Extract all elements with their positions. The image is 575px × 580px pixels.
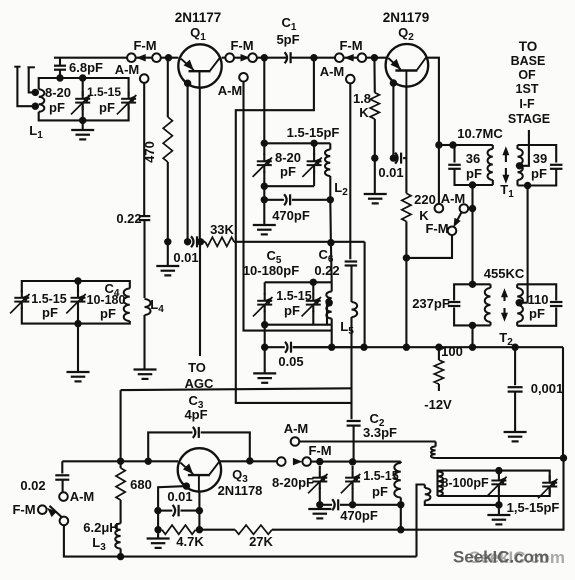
svg-text:39: 39 xyxy=(533,151,547,166)
svg-text:0.01: 0.01 xyxy=(173,250,198,265)
svg-text:8-20: 8-20 xyxy=(275,150,301,165)
capacitor 470pF FM xyxy=(320,499,401,510)
C4 labels xyxy=(87,281,126,321)
T1 secondary coil xyxy=(518,145,523,186)
1.5-15 right label xyxy=(507,500,560,515)
transistor Q1 xyxy=(178,44,221,87)
T2 secondary tap xyxy=(516,299,528,306)
svg-text:F-M: F-M xyxy=(133,38,156,53)
svg-text:3.3pF: 3.3pF xyxy=(363,425,397,440)
C3 labels xyxy=(184,393,207,422)
wire right edge down xyxy=(563,458,564,530)
antenna terminal 1 xyxy=(14,67,35,107)
-12V label xyxy=(424,397,452,412)
capacitor C6 0.22 xyxy=(345,262,358,266)
wire output row xyxy=(293,344,563,351)
F-M contact Q3b xyxy=(302,457,311,466)
svg-text:K: K xyxy=(359,105,369,120)
T2 secondary box xyxy=(517,284,556,326)
1.5-15 C5 label xyxy=(276,289,311,318)
tank top wire xyxy=(261,140,331,147)
svg-text:-12V: -12V xyxy=(424,397,452,412)
470pF FM label xyxy=(340,508,378,523)
L3 label xyxy=(83,520,118,553)
svg-text:OF: OF xyxy=(518,68,536,82)
resistor 33K xyxy=(201,237,365,246)
39pF label xyxy=(531,151,547,181)
1.5-15 C4 label xyxy=(31,292,66,320)
27K label xyxy=(249,534,273,549)
svg-text:SeekIC.com: SeekIC.com xyxy=(469,548,565,567)
variable capacitor C4 mid xyxy=(66,290,85,313)
svg-text:F-M: F-M xyxy=(339,38,362,53)
wire C2 down xyxy=(353,426,355,462)
A-M contact Q3 base xyxy=(59,492,68,501)
svg-text:F-M: F-M xyxy=(308,443,331,458)
wire line1 C3 loop xyxy=(121,388,352,390)
ground under C4 xyxy=(67,324,90,382)
F-M arrow 3 xyxy=(344,54,354,62)
Q3 labels xyxy=(218,467,263,498)
transistor Q2 xyxy=(386,44,429,87)
variable capacitor C4 left xyxy=(10,290,29,313)
svg-text:F-M: F-M xyxy=(12,502,35,517)
svg-text:A-M: A-M xyxy=(70,489,95,504)
svg-text:0.22: 0.22 xyxy=(314,263,339,278)
variable capacitor 1.5-15 L2 tank xyxy=(302,143,321,186)
svg-text:470pF: 470pF xyxy=(272,208,310,223)
resistor 1.8K xyxy=(370,58,379,158)
F-M label mid xyxy=(230,38,253,53)
L1 label xyxy=(29,123,43,141)
inductor small choke xyxy=(425,485,499,505)
resistor 27K xyxy=(199,525,562,534)
A-M contact mid xyxy=(239,73,248,82)
wire box center branch xyxy=(79,74,86,124)
ground under 1.8K xyxy=(364,158,387,203)
inductor FM choke xyxy=(394,462,404,530)
wire C4 center branch xyxy=(74,277,81,327)
T2 secondary coil xyxy=(517,284,523,326)
F-M arrow right xyxy=(241,54,251,62)
T1 secondary box xyxy=(518,145,557,186)
svg-text:4.7K: 4.7K xyxy=(176,534,204,549)
svg-text:1.5-15: 1.5-15 xyxy=(276,289,311,303)
1.8K label xyxy=(353,91,371,120)
T1 primary coil xyxy=(488,145,493,185)
svg-text:A-M: A-M xyxy=(284,421,309,436)
F-M switch contact 2 xyxy=(152,53,161,62)
680 label xyxy=(130,477,152,492)
0.001 label xyxy=(531,381,564,396)
antenna tank box xyxy=(39,78,129,120)
33K label xyxy=(210,222,234,237)
variable capacitor 8-20 L2 tank xyxy=(253,143,272,190)
svg-text:A-M: A-M xyxy=(218,83,243,98)
svg-text:4pF: 4pF xyxy=(184,407,207,422)
tank bottom wire xyxy=(264,185,314,187)
C4 tank box xyxy=(22,281,130,324)
svg-text:1.8: 1.8 xyxy=(353,91,371,106)
F-M label T1 xyxy=(425,221,448,236)
junction dot 470 xyxy=(165,54,172,61)
C5 tank box top xyxy=(265,279,332,286)
wire 0.01 left down xyxy=(154,511,161,534)
watermark xyxy=(453,548,565,568)
ground under FM tank xyxy=(308,505,331,519)
svg-text:1,5-15pF: 1,5-15pF xyxy=(507,500,560,515)
A-M label left xyxy=(115,62,140,77)
470 label xyxy=(142,141,157,163)
wire Q1 emitter down xyxy=(184,80,191,242)
svg-text:36: 36 xyxy=(466,151,480,166)
inductor L4 xyxy=(145,299,151,369)
F-M label right xyxy=(339,38,362,53)
A-M label T1 xyxy=(441,191,466,206)
C1 label xyxy=(276,15,299,47)
ground under 0.001 xyxy=(504,432,527,441)
transistor Q3 xyxy=(178,448,221,491)
junction dots 0.01 xyxy=(164,238,204,245)
F-M switch contact 4 xyxy=(248,53,257,62)
F-M arrow Q3 xyxy=(293,458,303,466)
svg-text:1.5-15pF: 1.5-15pF xyxy=(287,125,340,140)
svg-text:pF: pF xyxy=(466,166,482,181)
T2 label xyxy=(499,330,513,348)
switch arm F-M T1 xyxy=(454,212,462,227)
wire T1 primary feed xyxy=(439,141,457,148)
wire A-M mid down xyxy=(244,82,332,331)
TO AGC label xyxy=(185,360,215,391)
237pF label xyxy=(412,296,450,311)
470pF L2 label xyxy=(272,208,310,223)
capacitor 0.01 Q3 xyxy=(158,505,200,516)
wire bottom rail xyxy=(121,556,417,558)
svg-text:0.22: 0.22 xyxy=(116,211,141,226)
wire Q3 collector out xyxy=(220,457,277,464)
svg-text:220: 220 xyxy=(414,192,436,207)
capacitor 39pF xyxy=(550,165,563,169)
wire jog C1 right xyxy=(236,58,352,403)
svg-text:pF: pF xyxy=(529,306,545,321)
variable capacitor 1.5-15 right xyxy=(538,475,557,498)
svg-text:I-F: I-F xyxy=(519,97,535,111)
T1 primary box xyxy=(455,145,493,185)
capacitor 6.8pF xyxy=(54,58,66,82)
110pF label xyxy=(528,292,549,321)
ground under 470 xyxy=(156,242,179,276)
inductor L3 xyxy=(115,524,124,561)
wire F-M contact to 220K xyxy=(406,235,452,258)
capacitor 0.22 left xyxy=(139,83,151,298)
A-M label Q3 out xyxy=(284,421,309,436)
8-100 box xyxy=(438,467,550,496)
wire T2 primary bottom xyxy=(471,325,473,347)
A-M contact Q3 out xyxy=(291,437,300,446)
svg-text:110: 110 xyxy=(528,292,549,307)
svg-text:2N1178: 2N1178 xyxy=(218,483,263,498)
T2 primary box xyxy=(454,281,490,330)
inductor L5 secondary xyxy=(352,266,358,420)
junction dot 1.8K xyxy=(371,54,378,61)
100 label xyxy=(441,344,463,359)
resistor 100 xyxy=(434,347,443,391)
svg-text:10-180: 10-180 xyxy=(87,293,126,307)
F-M label left xyxy=(133,38,156,53)
36pF label xyxy=(466,151,482,181)
inductor L1 xyxy=(32,89,45,112)
svg-text:2N1177: 2N1177 xyxy=(175,10,222,25)
ground under 4.7K xyxy=(147,530,170,548)
variable capacitor C5 left xyxy=(253,282,272,328)
switch pivot T1 xyxy=(460,204,473,213)
A-M label right xyxy=(320,64,345,79)
svg-text:237pF: 237pF xyxy=(412,296,450,311)
inductor 8-100 coil xyxy=(438,472,443,497)
wire Q2 base down xyxy=(405,87,407,194)
T2 coupling arrows xyxy=(501,288,508,321)
resistor 4.7K xyxy=(162,525,196,534)
0.22 left label xyxy=(116,211,141,226)
junction dot C1 left xyxy=(261,54,268,61)
svg-text:pF: pF xyxy=(372,484,388,499)
F-M contact T1 xyxy=(448,227,457,236)
0.01 Q3 label xyxy=(167,489,192,504)
wire TO AGC xyxy=(199,242,201,356)
C6 labels xyxy=(314,247,339,278)
wire Q1 base down xyxy=(199,88,201,242)
svg-text:A-M: A-M xyxy=(115,62,140,77)
F-M switch contact left xyxy=(127,53,136,62)
capacitor 470pF L2 xyxy=(264,194,330,205)
wire C5 feed down xyxy=(330,200,331,282)
wire T1 secondary bottom down xyxy=(524,182,531,303)
svg-text:STAGE: STAGE xyxy=(508,112,550,126)
resistor 470 xyxy=(163,58,172,242)
svg-text:455KC: 455KC xyxy=(484,266,525,281)
capacitor 36pF xyxy=(448,165,461,169)
svg-text:pF: pF xyxy=(531,166,547,181)
F-M label Q3 out xyxy=(308,443,331,458)
variable capacitor C5 mid xyxy=(302,282,321,324)
svg-text:8-20: 8-20 xyxy=(45,85,71,100)
wire T1 primary bottom down xyxy=(469,181,476,284)
1.5-15 FM label xyxy=(363,469,398,499)
wire row right down xyxy=(562,347,564,459)
svg-text:10-180pF: 10-180pF xyxy=(243,263,299,278)
L4 label xyxy=(150,297,164,315)
8-20 L2 label xyxy=(275,150,301,179)
wire 33K row corner down xyxy=(327,239,368,351)
A-M contact T1 xyxy=(435,204,444,213)
wire rail up right xyxy=(417,485,425,557)
svg-text:BASE: BASE xyxy=(511,54,546,68)
svg-text:100: 100 xyxy=(441,344,463,359)
svg-text:pF: pF xyxy=(99,100,115,115)
F-M switch bottom pivot xyxy=(60,517,121,557)
ground under 0.05 xyxy=(253,347,276,383)
wire rail Q1 to C1 xyxy=(222,57,286,59)
svg-text:8-100pF: 8-100pF xyxy=(441,476,489,490)
wire C1 to Q2 xyxy=(291,57,386,59)
L5 tap xyxy=(326,299,333,325)
C5 labels xyxy=(243,248,299,278)
capacitor C2 3.3pF xyxy=(347,421,361,426)
svg-text:0.01: 0.01 xyxy=(378,165,403,180)
6.8pF label xyxy=(69,60,103,75)
svg-text:0,001: 0,001 xyxy=(531,381,564,396)
F-M arrow left xyxy=(136,54,146,62)
ground under L2 tank xyxy=(253,200,276,235)
junction dots Q2 0.01 xyxy=(371,154,397,161)
capacitor 0.01 Q2 xyxy=(375,153,407,164)
L2 label xyxy=(334,180,348,198)
8-100pF label xyxy=(441,476,489,490)
svg-text:5pF: 5pF xyxy=(276,32,299,47)
wire L5 bottom to row xyxy=(328,325,335,351)
0.01 Q2 label xyxy=(378,165,403,180)
F-M label bottom xyxy=(12,502,35,517)
wire Q3 base row xyxy=(62,458,178,465)
wire A-M row choke xyxy=(431,442,567,462)
L5 label xyxy=(340,319,354,337)
T1 label xyxy=(500,182,514,200)
svg-text:8-20pF: 8-20pF xyxy=(272,475,314,490)
455KC label xyxy=(484,266,525,281)
F-M switch contact 5 xyxy=(335,53,344,62)
0.05 label xyxy=(278,354,303,369)
4.7K label xyxy=(176,534,204,549)
variable capacitor 8-20pF xyxy=(71,91,90,114)
C3 loop wire xyxy=(148,432,250,461)
wire A-M row xyxy=(299,440,435,442)
output label xyxy=(508,39,550,126)
capacitor 0.05 xyxy=(265,342,364,353)
capacitor 0.02 xyxy=(55,461,69,492)
220K label xyxy=(414,192,436,223)
F-M switch contact 3 xyxy=(225,53,234,62)
svg-text:pF: pF xyxy=(100,306,116,321)
wire tank left down xyxy=(261,186,268,203)
C4 coil right edge xyxy=(124,289,130,322)
F-M switch contact 6 xyxy=(358,53,367,62)
0.01 Q1 label xyxy=(173,250,198,265)
1.5-15pF L2 label xyxy=(287,125,340,140)
A-M label mid xyxy=(218,83,243,98)
Q2 labels xyxy=(383,10,430,43)
wire Q3 emitter down xyxy=(196,492,203,534)
wire rail to tank xyxy=(263,58,265,144)
switch arm bottom xyxy=(47,506,62,518)
svg-text:0.02: 0.02 xyxy=(20,478,45,493)
F-M contact bottom xyxy=(38,505,47,514)
capacitor 0.01 Q1 xyxy=(188,236,197,247)
svg-text:A-M: A-M xyxy=(320,64,345,79)
svg-text:27K: 27K xyxy=(249,534,273,549)
capacitor 237pF xyxy=(448,302,461,306)
wire Q2 emitter down xyxy=(390,79,397,158)
svg-text:pF: pF xyxy=(49,100,65,115)
svg-text:0.01: 0.01 xyxy=(167,489,192,504)
svg-text:33K: 33K xyxy=(210,222,234,237)
ground below tank box xyxy=(71,120,94,139)
svg-text:TO: TO xyxy=(188,360,206,375)
capacitor C1 5pF xyxy=(285,52,291,63)
svg-text:TO: TO xyxy=(519,39,538,54)
T2 primary coil xyxy=(485,284,491,325)
0.01 box Q3 xyxy=(154,486,186,514)
wire F-M row xyxy=(311,458,401,466)
capacitor 110pF xyxy=(550,302,563,306)
ground under L4 xyxy=(134,370,157,379)
wire top rail left xyxy=(54,57,178,59)
svg-text:6.2μH: 6.2μH xyxy=(83,520,118,535)
C5 tank box bottom xyxy=(265,324,332,326)
variable capacitor 8-20pF FM tank xyxy=(308,466,327,509)
Q3 emitter dot xyxy=(183,482,190,489)
svg-text:0.05: 0.05 xyxy=(278,354,303,369)
A-M contact left xyxy=(140,74,149,83)
variable capacitor 1.5-15 FM tank xyxy=(341,466,360,508)
variable capacitor 1.5-15pF xyxy=(117,91,136,114)
svg-text:10.7MC: 10.7MC xyxy=(457,126,503,141)
10.7MC label xyxy=(457,126,503,141)
wire Q2 collector to T1 xyxy=(428,58,443,209)
svg-text:pF: pF xyxy=(42,305,58,320)
1.5-15 value label xyxy=(87,85,121,115)
resistor 680 xyxy=(116,461,125,523)
Q1 labels xyxy=(175,10,222,43)
C2 labels xyxy=(363,411,397,440)
inductor L2 xyxy=(325,143,334,203)
capacitor C3 4pF xyxy=(193,427,199,438)
variable capacitor 8-100 branch xyxy=(487,471,506,509)
ground under 8-100 xyxy=(487,505,510,525)
svg-text:470pF: 470pF xyxy=(340,508,378,523)
svg-text:F-M: F-M xyxy=(230,38,253,53)
0.02 label xyxy=(20,478,45,493)
junction dot C1 right xyxy=(310,54,317,61)
F-M contact Q3 out xyxy=(277,457,286,466)
wire A-M right down xyxy=(349,83,351,259)
capacitor 0.001 xyxy=(508,347,523,431)
svg-text:2N1179: 2N1179 xyxy=(383,10,430,25)
antenna terminal 2 xyxy=(27,67,35,92)
svg-text:A-M: A-M xyxy=(441,191,466,206)
T1 coupling arrows xyxy=(502,146,509,183)
wire C5 left to row xyxy=(261,325,268,351)
svg-text:1.5-15: 1.5-15 xyxy=(31,292,66,306)
A-M contact right xyxy=(346,75,355,84)
8-20 value label xyxy=(45,85,71,115)
svg-text:1.5-15: 1.5-15 xyxy=(87,85,121,99)
resistor 220K xyxy=(402,193,411,347)
svg-text:pF: pF xyxy=(284,303,300,318)
svg-text:680: 680 xyxy=(130,477,152,492)
A-M label Q3 base xyxy=(70,489,95,504)
svg-text:6.8pF: 6.8pF xyxy=(69,60,103,75)
svg-text:pF: pF xyxy=(280,164,296,179)
T1 secondary tap xyxy=(516,130,529,170)
wire line1 left down xyxy=(120,390,122,461)
svg-text:F-M: F-M xyxy=(425,221,448,236)
8-20pF FM label xyxy=(272,475,314,490)
svg-text:1ST: 1ST xyxy=(516,82,539,96)
inductor L5 xyxy=(326,282,331,324)
